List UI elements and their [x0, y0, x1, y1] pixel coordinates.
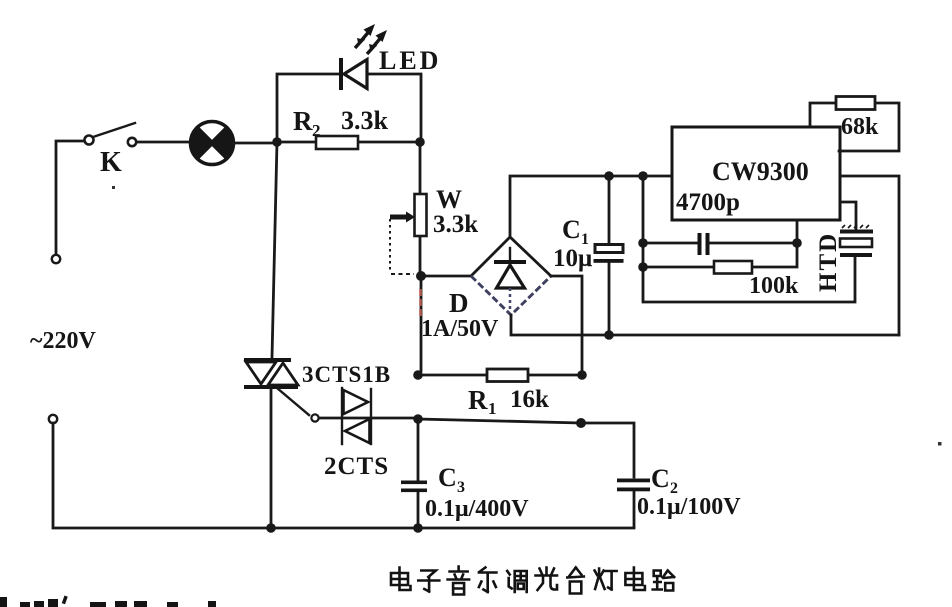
node junction C3 bottom — [413, 523, 423, 533]
potentiometer W 3.3k — [390, 145, 478, 274]
LED — [341, 24, 441, 90]
wire triac gate — [277, 388, 341, 422]
hanzi lu 路 — [653, 571, 675, 591]
capacitor 4700p — [643, 233, 797, 255]
node AC source upper terminal — [52, 255, 60, 263]
buzzer HTD — [815, 202, 873, 292]
svg-text:~220V: ~220V — [30, 328, 96, 354]
capacitor C3 0.1u/400V — [401, 419, 529, 525]
wire — [53, 423, 272, 528]
svg-text:D: D — [449, 288, 469, 318]
wire lower horizontal to C2 — [418, 419, 634, 477]
svg-text:C: C — [651, 464, 670, 493]
wire — [137, 141, 191, 144]
wire bridge right output — [551, 276, 582, 371]
hanzi tiao 调 — [507, 571, 527, 592]
wire bottom rail right — [272, 527, 634, 530]
wire bridge top to rail — [510, 176, 672, 236]
wire — [421, 275, 469, 278]
svg-text:R: R — [293, 106, 313, 136]
svg-text:4700p: 4700p — [676, 189, 740, 216]
triac 3CTS1B — [244, 142, 391, 525]
node junction 4700p right / IC pin — [792, 238, 802, 248]
capacitor C2 0.1u/100V — [617, 464, 741, 527]
svg-text:CW9300: CW9300 — [712, 157, 809, 186]
wire LED branch left — [277, 74, 338, 142]
resistor R2 — [281, 106, 417, 149]
node junction C1 top — [604, 171, 614, 181]
decorative specks — [112, 186, 942, 446]
wire HTD return — [643, 176, 855, 302]
label ~220V — [30, 328, 96, 354]
hanzi deng 灯 — [595, 569, 617, 590]
node junction diac/C3 — [413, 414, 423, 424]
svg-text:0.1μ/400V: 0.1μ/400V — [425, 496, 529, 522]
wire IC right pin to bottom rail — [840, 176, 899, 335]
svg-text:C: C — [438, 463, 457, 492]
resistor 100k — [643, 247, 799, 299]
svg-text:3CTS1B: 3CTS1B — [302, 362, 391, 387]
bridge rectifier D 1A/50V — [421, 237, 551, 342]
node junction R1 right — [577, 370, 587, 380]
node junction R2 right — [415, 137, 425, 147]
svg-text:K: K — [100, 147, 122, 178]
capacitor C1 10u — [553, 176, 624, 331]
wire — [232, 142, 277, 145]
hanzi dian2 电 — [625, 568, 645, 591]
node junction 4700p left — [638, 238, 648, 248]
wire triac anode vertical (red overprint) — [419, 281, 422, 371]
hanzi zi 子 — [418, 571, 439, 592]
wire diac to R1 node — [342, 417, 418, 420]
svg-text:2: 2 — [312, 121, 321, 140]
IC U1 CW9300 — [672, 127, 840, 220]
node junction W bottom — [416, 271, 426, 281]
wire IC bottom pin — [796, 220, 799, 243]
node AC source lower terminal — [49, 415, 57, 423]
node junction lamp/R2/LED/triac — [272, 137, 282, 147]
wire bridge bottom to rail — [511, 315, 899, 335]
svg-text:1A/50V: 1A/50V — [421, 316, 499, 342]
svg-text:HTD: HTD — [815, 232, 842, 292]
node junction HTD net on top rail — [638, 171, 648, 181]
hanzi le 乐 — [479, 568, 497, 593]
wire LED branch right — [367, 74, 421, 139]
caption 电子音乐调光台灯电路 — [391, 567, 674, 595]
svg-text:16k: 16k — [510, 386, 549, 413]
node junction 100k left — [638, 262, 648, 272]
node junction triac on bottom rail — [266, 523, 276, 533]
svg-text:68k: 68k — [841, 114, 879, 140]
svg-text:3: 3 — [457, 479, 465, 496]
lamp EL — [191, 122, 234, 165]
svg-text:2CTS: 2CTS — [324, 453, 389, 480]
svg-text:3.3k: 3.3k — [433, 211, 478, 238]
node junction R1 left — [413, 370, 423, 380]
hanzi guang 光 — [536, 568, 558, 591]
svg-text:100k: 100k — [749, 273, 799, 299]
resistor R1 16k — [418, 369, 582, 418]
svg-text:R: R — [468, 385, 488, 415]
svg-text:C: C — [562, 215, 581, 244]
resistor 68k — [810, 97, 899, 152]
svg-text:10μ: 10μ — [553, 245, 592, 272]
svg-text:0.1μ/100V: 0.1μ/100V — [637, 494, 741, 520]
diac 2CTS — [324, 388, 389, 480]
switch K — [85, 123, 137, 178]
partial cropped text bottom-left — [0, 596, 216, 607]
node junction R1 right lower — [576, 418, 586, 428]
svg-text:3.3k: 3.3k — [341, 106, 389, 135]
svg-text:W: W — [436, 185, 462, 214]
svg-text:1: 1 — [488, 399, 497, 418]
node junction C1 bottom — [604, 330, 614, 340]
hanzi yin 音 — [448, 567, 470, 595]
hanzi dian 电 — [391, 568, 411, 591]
svg-text:LED: LED — [379, 46, 441, 75]
hanzi tai 台 — [567, 568, 584, 594]
wire — [56, 141, 84, 254]
